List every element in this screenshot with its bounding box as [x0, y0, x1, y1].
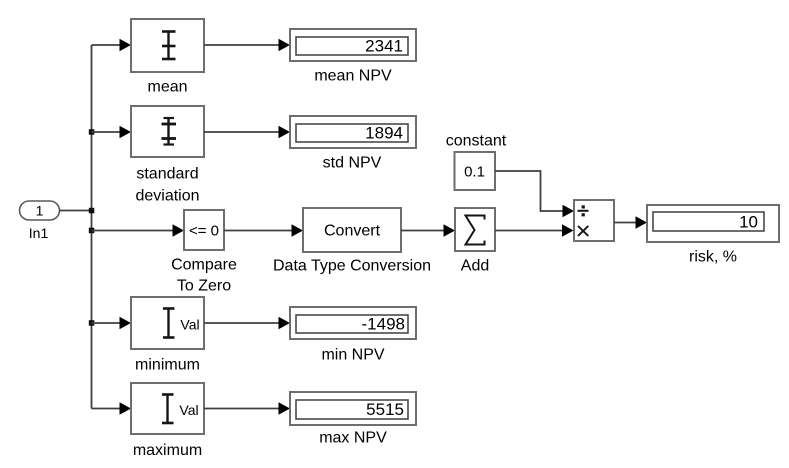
- wire convert to add: [401, 230, 444, 232]
- display max NPV: [290, 392, 416, 447]
- wire maximum to display: [204, 408, 279, 410]
- svg-text:10: 10: [739, 213, 758, 232]
- svg-text:Compare: Compare: [171, 257, 237, 274]
- svg-text:maximum: maximum: [133, 442, 202, 459]
- svg-text:1: 1: [36, 203, 44, 219]
- block standard deviation U2: [131, 106, 204, 205]
- svg-text:1894: 1894: [365, 124, 403, 143]
- block divide U4: [574, 200, 614, 241]
- svg-text:constant: constant: [446, 133, 507, 150]
- display mean NPV: [290, 29, 416, 85]
- node junction std row: [89, 129, 95, 135]
- wire port to bus: [60, 210, 92, 212]
- block minimum U5: [131, 297, 204, 374]
- wire bus to minimum: [92, 322, 121, 324]
- svg-text:max NPV: max NPV: [319, 430, 387, 447]
- svg-text:Val: Val: [180, 317, 199, 333]
- display min NPV: [290, 307, 416, 364]
- svg-text:std NPV: std NPV: [323, 155, 382, 172]
- wire main vertical bus: [91, 45, 93, 409]
- wire minimum to display: [204, 322, 279, 324]
- wire mean to display: [204, 44, 279, 46]
- block Compare To Zero: [171, 210, 237, 295]
- wire std to display: [204, 131, 279, 133]
- svg-text:2341: 2341: [365, 37, 403, 56]
- svg-text:deviation: deviation: [135, 188, 199, 205]
- block maximum U6: [131, 383, 204, 459]
- node junction mid row: [89, 228, 95, 234]
- wire compare to convert: [224, 230, 292, 232]
- input port In1: [20, 201, 60, 241]
- svg-text:min NPV: min NPV: [321, 347, 384, 364]
- svg-text:5515: 5515: [366, 400, 404, 419]
- wire add to divide: [495, 230, 562, 232]
- svg-text:Add: Add: [461, 258, 489, 275]
- wire bus to maximum: [92, 408, 121, 410]
- svg-text:mean: mean: [147, 79, 187, 96]
- block mean U1: [131, 19, 204, 96]
- svg-text:Data Type Conversion: Data Type Conversion: [273, 258, 431, 275]
- wire divide to risk display: [614, 222, 636, 224]
- svg-text:Convert: Convert: [324, 223, 381, 240]
- svg-text:-1498: -1498: [362, 315, 405, 334]
- block Add U3: [455, 208, 495, 275]
- svg-text:In1: In1: [29, 225, 49, 241]
- display risk %: [647, 205, 779, 266]
- node junction port-bus: [89, 208, 95, 214]
- wire constant to divide: [495, 171, 563, 211]
- svg-text:To Zero: To Zero: [177, 278, 231, 295]
- svg-text:minimum: minimum: [135, 357, 200, 374]
- svg-text:risk, %: risk, %: [689, 249, 737, 266]
- svg-text:0.1: 0.1: [464, 164, 485, 181]
- block constant C1: [446, 133, 507, 191]
- wire bus to mean: [92, 44, 121, 46]
- wire bus to std: [92, 131, 121, 133]
- svg-text:mean NPV: mean NPV: [314, 68, 392, 85]
- display std NPV: [290, 116, 416, 172]
- svg-text:standard: standard: [136, 166, 198, 183]
- block Data Type Conversion: [273, 208, 431, 275]
- svg-text:<= 0: <= 0: [189, 223, 219, 240]
- wire bus to compare: [92, 230, 174, 232]
- svg-text:Val: Val: [179, 402, 198, 418]
- node junction min row: [89, 320, 95, 326]
